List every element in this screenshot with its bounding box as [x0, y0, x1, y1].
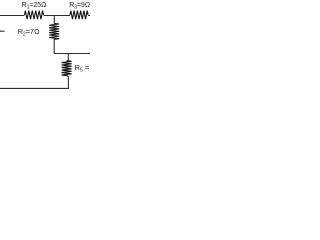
label R3=9ohm (clipped at right edge) — [69, 0, 90, 11]
resistor R5 — [62, 61, 72, 76]
label R5= (value clipped at right edge) — [75, 63, 90, 74]
svg-text:R5 =: R5 = — [75, 63, 90, 74]
resistor R3 — [70, 11, 88, 20]
wire from R2 down and to mid rail — [54, 39, 90, 53]
wire top rail — [0, 15, 90, 17]
dash (cropped polarity mark) at left edge — [0, 30, 5, 32]
wire from top rail down to R2 — [53, 16, 55, 24]
wire from mid rail down to R5 — [67, 54, 69, 61]
label R1=25ohm — [22, 0, 47, 11]
wire bottom rail — [0, 87, 69, 89]
wire from R5 down to bottom rail — [67, 76, 69, 89]
resistor R1 — [25, 11, 44, 20]
resistor R2 — [49, 23, 59, 39]
label R2=7ohm — [18, 27, 40, 38]
svg-text:R1=25Ω: R1=25Ω — [22, 0, 47, 11]
svg-text:R2=7Ω: R2=7Ω — [18, 27, 40, 38]
svg-text:R3=9Ω: R3=9Ω — [69, 0, 90, 11]
